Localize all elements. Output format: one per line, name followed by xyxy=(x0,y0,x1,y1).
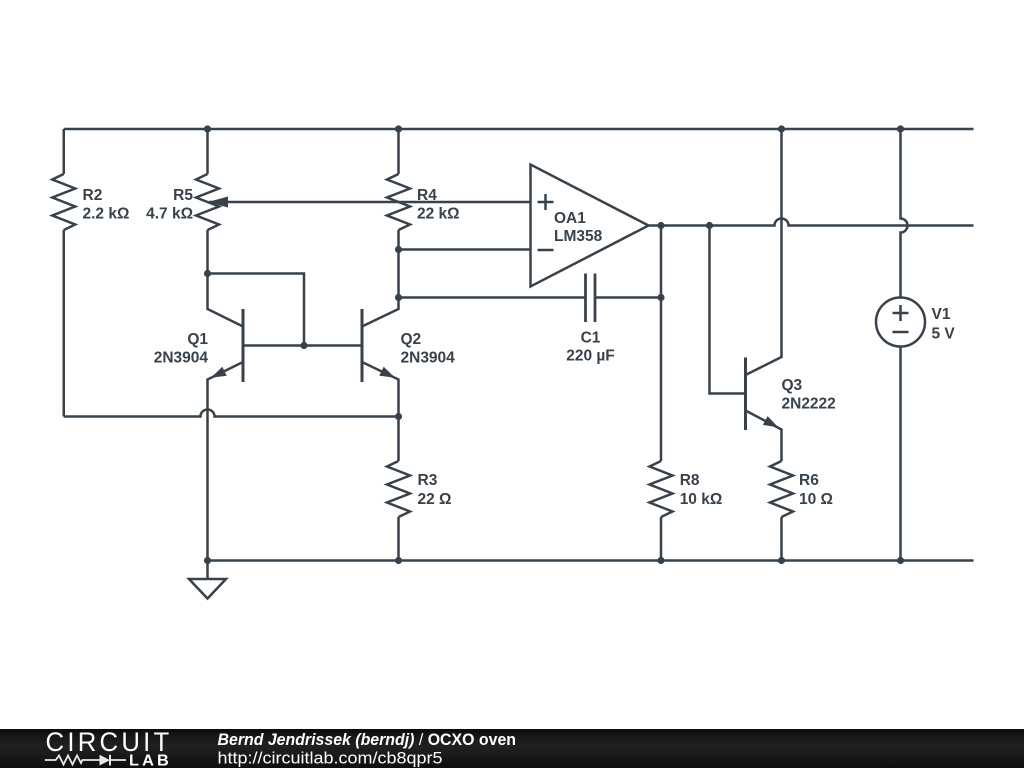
svg-text:V1: V1 xyxy=(932,306,951,323)
svg-text:10 kΩ: 10 kΩ xyxy=(680,491,723,508)
svg-text:C1: C1 xyxy=(581,330,601,347)
svg-text:10 Ω: 10 Ω xyxy=(799,491,833,508)
svg-text:LAB: LAB xyxy=(129,753,172,768)
svg-text:Q1: Q1 xyxy=(187,331,208,348)
svg-text:R3: R3 xyxy=(418,472,438,489)
svg-text:4.7 kΩ: 4.7 kΩ xyxy=(146,206,193,223)
svg-text:OA1: OA1 xyxy=(554,210,586,227)
svg-text:R8: R8 xyxy=(680,472,700,489)
svg-text:R5: R5 xyxy=(173,187,193,204)
svg-text:220 µF: 220 µF xyxy=(566,348,615,365)
svg-text:22 Ω: 22 Ω xyxy=(418,491,452,508)
svg-text:LM358: LM358 xyxy=(554,228,603,245)
svg-text:2N3904: 2N3904 xyxy=(401,350,456,367)
svg-text:Bernd Jendrissek (berndj) / OC: Bernd Jendrissek (berndj) / OCXO oven xyxy=(218,730,517,749)
svg-text:R6: R6 xyxy=(799,472,819,489)
svg-text:http://circuitlab.com/cb8qpr5: http://circuitlab.com/cb8qpr5 xyxy=(218,749,443,768)
svg-text:2.2 kΩ: 2.2 kΩ xyxy=(83,206,130,223)
svg-text:Q2: Q2 xyxy=(401,331,422,348)
svg-text:5 V: 5 V xyxy=(932,325,956,342)
svg-text:2N2222: 2N2222 xyxy=(782,396,836,413)
svg-text:2N3904: 2N3904 xyxy=(154,350,209,367)
svg-text:22 kΩ: 22 kΩ xyxy=(417,206,460,223)
svg-text:Q3: Q3 xyxy=(782,377,803,394)
svg-text:R2: R2 xyxy=(83,187,103,204)
svg-text:R4: R4 xyxy=(417,187,437,204)
